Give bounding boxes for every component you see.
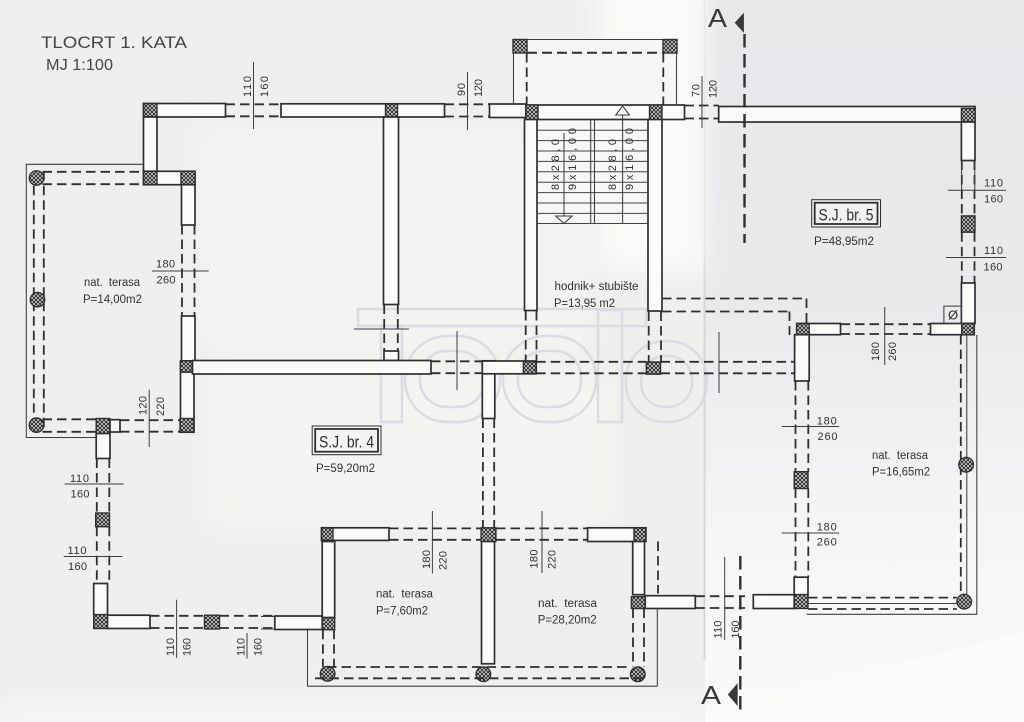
column top-right-end: [961, 109, 975, 123]
terrace1665 outer edge bottom: [807, 335, 977, 614]
svg-text:260: 260: [818, 431, 838, 443]
section line top: [743, 34, 745, 243]
background right page: [705, 0, 1024, 722]
central wall opening dashes: [383, 305, 385, 352]
band opening dashes 180/220 no2: [496, 527, 588, 529]
SJ5 right wall opening dashes: [961, 161, 963, 216]
west opening dashes 110/160: [96, 459, 98, 514]
svg-text:220: 220: [155, 397, 167, 416]
svg-text:260: 260: [817, 537, 837, 549]
svg-text:S.J. br. 4: S.J. br. 4: [319, 433, 374, 452]
section line bottom: [739, 556, 741, 710]
column band-center: [481, 528, 496, 542]
column SJ5 bottom-left: [797, 324, 810, 335]
svg-text:180: 180: [817, 522, 837, 534]
stair wall left dashes below: [525, 311, 527, 361]
SJ5 right wall piece: [961, 283, 975, 324]
stair arrow line left flight: [563, 133, 565, 216]
dim 110|160 south no1: [176, 600, 178, 658]
svg-text:A: A: [708, 3, 728, 33]
svg-text:110: 110: [236, 638, 248, 656]
wall right vertical stub: [961, 122, 975, 161]
stairwell top wall: [526, 105, 685, 120]
dim 180|260 SJ5: [884, 307, 886, 365]
column SJ5 right mid: [961, 216, 975, 232]
svg-text:160: 160: [259, 76, 271, 97]
terrace2820 right dashes below: [632, 609, 634, 668]
terrace1400 outer edge: [26, 164, 143, 437]
column corner: [523, 362, 536, 374]
circle column terrace1400 top: [29, 171, 43, 185]
svg-text:nat. terasa: nat. terasa: [538, 598, 598, 610]
svg-text:MJ 1:100: MJ 1:100: [46, 57, 113, 74]
svg-text:260: 260: [887, 342, 899, 361]
terrace1665 right inner line: [966, 335, 968, 594]
wall below column south-1: [96, 434, 110, 459]
wall bottom right piece: [753, 595, 794, 609]
column SJ5 bottom-right: [962, 324, 975, 335]
svg-text:P=16,65m2: P=16,65m2: [872, 467, 930, 479]
svg-text:70: 70: [691, 84, 703, 97]
wall D: [193, 361, 432, 375]
wall right of terrace2820: [633, 542, 645, 595]
balcony outline: [514, 40, 677, 106]
watermark Tobis: [358, 309, 707, 422]
dim 120|220: [148, 390, 150, 447]
dim 110|160 top-left: [253, 62, 255, 129]
wall band dashes to SJ5: [661, 361, 795, 363]
wall east of terrace2820: [645, 596, 695, 609]
svg-text:180: 180: [817, 416, 837, 428]
stair wall right dashes below: [648, 312, 650, 362]
wall H cap extension lines: [261, 616, 275, 618]
svg-text:P=48,95m2: P=48,95m2: [814, 236, 874, 248]
SJ5 right wall opening dashes 2: [961, 232, 963, 283]
terrace1665 left wall stub bottom: [794, 577, 808, 595]
svg-text:P=7,60m2: P=7,60m2: [376, 606, 428, 618]
wall south-G: [108, 615, 151, 628]
south opening dashes 120/220: [120, 419, 180, 421]
circle column terrace2820 bottom: [631, 667, 646, 682]
balcony dashed edge: [527, 52, 663, 54]
svg-text:180: 180: [156, 259, 175, 271]
terrace1665 left dashes lower: [795, 489, 797, 578]
circle column terrace1665 bottom-right: [957, 594, 972, 609]
dim 110/160 right no2: [946, 257, 1006, 259]
balcony dashed side right: [662, 53, 664, 105]
svg-text:Ø: Ø: [948, 308, 958, 323]
wall below F: [182, 185, 196, 225]
south opening dashes G2: [220, 615, 275, 617]
SJ5 bottom wall dashes: [841, 323, 931, 325]
svg-text:S.J. br. 5: S.J. br. 5: [819, 206, 874, 225]
svg-text:160: 160: [68, 561, 87, 573]
south opening dashes G: [150, 615, 205, 617]
svg-text:110: 110: [713, 621, 725, 639]
room interior light patch SJ4: [200, 125, 590, 355]
column band-left: [322, 528, 334, 541]
svg-text:110: 110: [984, 245, 1003, 257]
svg-text:P=13,95 m2: P=13,95 m2: [554, 298, 615, 310]
column west-mid: [96, 513, 110, 527]
door opening dashes left wall: [181, 225, 183, 316]
tick horizontal central: [354, 328, 409, 330]
corridor dashed connector left: [789, 312, 791, 336]
svg-text:110: 110: [70, 473, 89, 485]
wall band top of terraces: [322, 528, 390, 541]
corridor dashed lower: [662, 311, 790, 313]
thin line right of wall: [656, 609, 658, 687]
terrace1665 right dashed: [960, 335, 962, 594]
white wedge bottom right: [705, 632, 1024, 722]
dim 70|120: [701, 76, 703, 128]
terrace1665 left dashes upper: [795, 381, 797, 472]
wall top-A: [144, 104, 226, 118]
column terrace1665 bottom-left: [794, 595, 808, 609]
dim 110/160 right no1: [948, 161, 1006, 192]
wall E upper: [182, 316, 196, 361]
terrace1665 bottom dashed: [808, 597, 957, 599]
svg-text:TLOCRT 1. KATA: TLOCRT 1. KATA: [41, 33, 188, 52]
dim 110|160 south no2: [246, 633, 248, 659]
central wall opening dashes above band: [482, 419, 484, 528]
svg-text:110: 110: [68, 545, 87, 557]
wall F horizontal: [144, 171, 196, 184]
wall corner horizontal: [482, 361, 536, 374]
page seam: [704, 0, 706, 660]
svg-text:220: 220: [547, 550, 559, 569]
column south-1: [96, 419, 110, 434]
column E-bottom: [180, 419, 194, 433]
dim 90|120: [467, 72, 469, 130]
column band-right: [634, 528, 646, 542]
svg-text:120: 120: [473, 79, 485, 97]
dim 180/260 terrace1665 no2: [782, 532, 840, 534]
column E-mid: [181, 361, 195, 372]
label box S.J. br. 5: [812, 200, 881, 227]
svg-text:110: 110: [984, 178, 1003, 190]
column terrace1665 left: [794, 472, 808, 489]
circle column terrace1665 right: [959, 457, 974, 472]
balcony column left: [513, 40, 527, 54]
west opening dashes 2: [96, 527, 98, 584]
dim 180/260 left terrace: [152, 270, 209, 272]
column top-A-left: [144, 104, 158, 118]
white strip bottom: [0, 702, 710, 722]
terrace760 left dashes below: [322, 630, 324, 667]
svg-text:260: 260: [157, 275, 176, 287]
svg-text:160: 160: [182, 638, 194, 656]
column southwest corner: [94, 615, 108, 629]
wall E lower: [181, 361, 195, 432]
dim 110/160 west no2: [64, 556, 123, 558]
wall band right piece: [588, 528, 646, 542]
circle column terrace760 bottom-left: [320, 667, 335, 682]
balcony dashed side left: [526, 53, 528, 105]
stairwell shaft white: [537, 119, 648, 224]
wall opening dashes 70/120: [685, 105, 719, 107]
column top-B: [386, 104, 398, 117]
label box S.J. br. 4: [312, 426, 381, 455]
balcony column right: [663, 40, 677, 54]
svg-text:220: 220: [438, 551, 450, 570]
terrace bottom outer line: [308, 630, 658, 686]
svg-text:110: 110: [242, 76, 254, 97]
terrace1400 top dashed pair: [43, 171, 144, 173]
tick vertical central: [456, 331, 458, 390]
circle column terrace1400 mid: [30, 293, 44, 307]
dashed above thin line: [657, 542, 659, 594]
stair arrow line right flight: [622, 115, 624, 224]
terrace bottom dashed no2: [315, 677, 648, 679]
wall opening dashes A-B: [226, 103, 282, 105]
tick vertical corridor: [718, 332, 720, 393]
wall top-B: [281, 104, 445, 117]
svg-text:120: 120: [708, 80, 720, 98]
column stair-top-right: [650, 105, 663, 120]
svg-text:180: 180: [870, 342, 882, 361]
central wall lower solid: [482, 542, 495, 664]
svg-text:160: 160: [984, 262, 1003, 274]
circle column central bottom: [476, 667, 491, 682]
boiler box: [944, 306, 962, 324]
stair left wall: [525, 120, 538, 311]
svg-text:nat. terasa: nat. terasa: [872, 450, 929, 462]
svg-text:160: 160: [71, 489, 90, 501]
corridor dashed upper: [662, 298, 807, 300]
svg-text:nat. terasa: nat. terasa: [376, 589, 434, 601]
section arrow bottom: [728, 683, 738, 706]
section arrow top: [735, 13, 744, 33]
balcony interior white: [514, 40, 676, 105]
svg-text:160: 160: [984, 194, 1003, 206]
stair right wall: [648, 120, 662, 312]
dim 180|220 no2: [541, 511, 543, 573]
corridor dashed connector right: [806, 299, 808, 324]
stair treads: [537, 130, 648, 223]
wall band dashes to stair: [536, 361, 646, 363]
white area top center of left page: [598, 0, 705, 270]
column south-H-right: [322, 617, 335, 630]
column stair-top-left: [526, 105, 538, 120]
svg-text:P=28,20m2: P=28,20m2: [538, 615, 597, 627]
wall corner vertical mid: [482, 361, 495, 419]
central wall stub: [384, 351, 399, 361]
SJ5 left wall stub: [795, 335, 810, 381]
dim 180/260 terrace1665 no1: [782, 426, 840, 428]
svg-text:P=59,20m2: P=59,20m2: [316, 463, 375, 475]
terrace bottom dashed no1: [327, 666, 631, 668]
svg-text:180: 180: [529, 550, 541, 569]
SJ5 bottom wall left piece: [797, 324, 841, 335]
dim 110/160 west no1: [65, 483, 124, 485]
svg-text:hodnik+ stubište: hodnik+ stubište: [555, 281, 639, 293]
wall left vertical under A: [144, 117, 158, 171]
circle column terrace1400 bottom: [29, 418, 43, 432]
svg-text:110: 110: [165, 638, 177, 656]
column south-2: [205, 615, 220, 629]
dim 180|220 no1: [431, 511, 433, 574]
wall west bottom: [94, 584, 108, 615]
stair divider: [590, 120, 592, 224]
svg-text:A: A: [701, 680, 722, 710]
column under stair right wall: [646, 362, 660, 374]
terrace1400 bottom dashed pair: [43, 418, 97, 420]
wall left of terrace760: [322, 542, 335, 618]
stair down triangle: [556, 216, 572, 224]
stair up triangle: [616, 106, 630, 115]
svg-text:120: 120: [138, 396, 150, 415]
svg-text:160: 160: [253, 638, 265, 656]
svg-text:nat. terasa: nat. terasa: [84, 277, 141, 289]
band opening dashes 180/220 no1: [389, 527, 481, 529]
column F-right: [181, 171, 195, 184]
wall top-right: [719, 107, 975, 123]
wall stub south-1: [110, 420, 120, 432]
central wall upper: [384, 117, 399, 305]
wall opening dashes B-C: [445, 103, 490, 105]
svg-text:90: 90: [456, 83, 468, 96]
wall D opening dashes: [431, 360, 483, 362]
column terrace2820 SE: [631, 597, 645, 609]
terrace1400 left dashed pair: [33, 171, 35, 432]
wall top-C: [490, 104, 527, 118]
dim extension dashes at east wall: [695, 595, 745, 597]
svg-text:P=14,00m2: P=14,00m2: [83, 294, 142, 306]
svg-text:180: 180: [421, 550, 433, 569]
SJ5 bottom wall right piece: [931, 324, 975, 335]
wall south-H: [275, 616, 322, 630]
column F-left: [144, 171, 158, 184]
dim 110|160 bottom-right: [724, 557, 726, 640]
